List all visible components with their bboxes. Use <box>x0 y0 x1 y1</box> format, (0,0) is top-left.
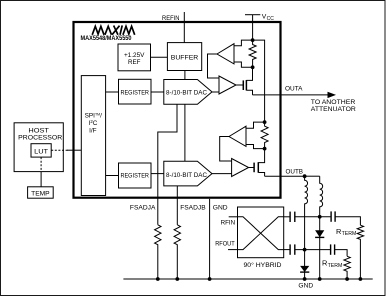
svg-text:BUFFER: BUFFER <box>171 54 199 61</box>
hybrid X path 2 <box>238 217 284 250</box>
wire sense A top stub <box>234 40 253 46</box>
op-amp driver A <box>219 76 236 94</box>
svg-text:TERM: TERM <box>328 263 343 269</box>
wire sense B feedback <box>220 137 232 162</box>
hybrid X path 1 <box>238 217 284 250</box>
resistor RTERM1 <box>357 225 363 279</box>
svg-text:8-/10-BIT DAC: 8-/10-BIT DAC <box>166 89 207 96</box>
wire OUTB <box>265 175 305 177</box>
capacitor C1 (RFIN left) <box>284 216 290 218</box>
svg-text:I2C: I2C <box>89 119 98 127</box>
hybrid coupler box <box>238 207 284 258</box>
port RFOUT stub <box>228 249 238 251</box>
wire RFOUT level <box>295 249 331 251</box>
svg-text:REGISTER: REGISTER <box>120 173 149 180</box>
wire LUT to TEMP (dashed then solid) <box>40 157 42 172</box>
wire DAC A to DAC B reference <box>184 104 186 161</box>
inductor L2 (right choke) <box>320 176 323 217</box>
svg-text:MAX5548/MAX5550: MAX5548/MAX5550 <box>81 35 132 42</box>
wire BUFFER to DAC A <box>184 71 186 80</box>
ground rail <box>123 278 372 280</box>
buffer U-BUF <box>167 43 201 71</box>
wire VCC to resistor B <box>253 40 265 122</box>
TEMP sensor box <box>28 187 54 198</box>
Maxim logo <box>93 26 135 34</box>
node VCC junction <box>251 38 255 42</box>
IC MAX5548/MAX5550 outline <box>74 22 281 198</box>
svg-text:TO ANOTHER: TO ANOTHER <box>311 99 356 106</box>
svg-text:ATTENUATOR: ATTENUATOR <box>311 106 356 113</box>
svg-text:CC: CC <box>267 16 275 22</box>
capacitor C3 (RFOUT left) <box>284 249 290 251</box>
svg-text:TERM: TERM <box>342 231 357 237</box>
wire to RTERM1 <box>335 217 360 225</box>
svg-text:PROCESSOR: PROCESSOR <box>18 135 62 142</box>
svg-text:TEMP: TEMP <box>31 190 50 197</box>
svg-text:90° HYBRID: 90° HYBRID <box>244 261 282 269</box>
svg-text:LUT: LUT <box>34 148 48 155</box>
svg-text:8-/10-BIT DAC: 8-/10-BIT DAC <box>166 172 207 179</box>
pin FSADJA wire <box>158 104 177 225</box>
register B <box>119 163 152 188</box>
svg-text:FSADJB: FSADJB <box>180 205 206 212</box>
svg-text:SPITM/: SPITM/ <box>85 112 103 119</box>
resistor sense B <box>261 122 268 149</box>
DAC B 8-/10-bit <box>164 161 212 186</box>
op-amp sense A <box>217 44 234 64</box>
host processor box <box>14 123 63 172</box>
wire RFIN level <box>295 216 331 218</box>
resistor sense A <box>249 40 256 67</box>
resistor R-FSADJA <box>155 225 161 279</box>
resistor R-FSADJB <box>174 225 180 279</box>
node resistor A bottom <box>251 65 255 69</box>
svg-text:REF: REF <box>128 59 141 66</box>
node GND rail <box>208 277 212 281</box>
capacitor C4 (RFOUT right) <box>330 244 332 254</box>
wire register A to DAC A <box>151 91 164 93</box>
wire OUTA with arrow <box>253 94 329 96</box>
svg-text:R: R <box>322 259 327 268</box>
svg-text:GND: GND <box>213 205 228 212</box>
svg-text:FSADJA: FSADJA <box>130 205 156 212</box>
resistor RTERM2 <box>344 256 350 279</box>
op-amp driver B <box>232 159 249 177</box>
transistor B (MOSFET) <box>249 167 255 169</box>
register A <box>119 79 152 104</box>
node resistor B bottom <box>263 147 267 151</box>
inductor L1 (left choke) <box>305 176 308 249</box>
node FSADJB rail <box>175 277 179 281</box>
wire SPI to register A <box>106 91 119 93</box>
capacitor C2 (RFIN right) <box>330 211 332 221</box>
node FSADJA rail <box>156 277 160 281</box>
wire REFIN to buffer <box>183 12 185 43</box>
wire sense B top stub <box>246 122 265 128</box>
wire SPI to register B <box>106 175 119 177</box>
DAC A 8-/10-bit <box>164 80 212 105</box>
svg-text:RFOUT: RFOUT <box>215 241 235 248</box>
transistor A (MOSFET) <box>236 84 243 86</box>
wire sense A bottom stub <box>234 62 253 67</box>
svg-text:+1.25V: +1.25V <box>124 52 145 59</box>
diode D1 <box>315 230 324 237</box>
svg-text:REGISTER: REGISTER <box>120 89 149 96</box>
svg-text:REFIN: REFIN <box>162 15 180 22</box>
svg-text:I/F: I/F <box>89 127 97 134</box>
wire sense A feedback <box>208 54 220 78</box>
node D2 rail <box>303 277 307 281</box>
pin FSADJB wire <box>176 186 178 225</box>
wire sense B bottom stub <box>246 145 265 149</box>
power VCC <box>245 14 260 16</box>
svg-text:RFIN: RFIN <box>221 219 236 226</box>
reference box +1.25V REF <box>118 44 151 71</box>
port RFIN stub <box>229 216 238 218</box>
node D1 rail <box>318 277 322 281</box>
svg-text:R: R <box>336 227 341 236</box>
pin GND wire <box>209 199 211 279</box>
node resistor B top <box>263 120 267 124</box>
wire REF to BUFFER <box>151 56 168 58</box>
svg-text:OUTA: OUTA <box>285 85 303 92</box>
LUT box <box>31 144 51 157</box>
node RFOUT junction <box>303 248 307 252</box>
wire DAC A to driver A <box>212 91 219 93</box>
node OUTB junction <box>303 174 307 178</box>
wire OUTB to right coil <box>305 175 320 177</box>
node RFIN junction <box>318 215 322 219</box>
wire DAC B to driver B <box>212 173 232 175</box>
node RTERM2 rail <box>345 277 349 281</box>
svg-text:GND: GND <box>298 283 313 290</box>
wire LUT to SPI (dashed then solid) <box>51 149 68 151</box>
wire to RTERM2 <box>335 250 348 257</box>
op-amp sense B <box>229 126 246 146</box>
node RTERM1 rail <box>359 277 363 281</box>
diode D2 <box>300 266 309 272</box>
svg-text:OUTB: OUTB <box>286 169 304 176</box>
SPI/I2C interface box <box>81 76 105 196</box>
wire register B to DAC B <box>151 173 164 175</box>
